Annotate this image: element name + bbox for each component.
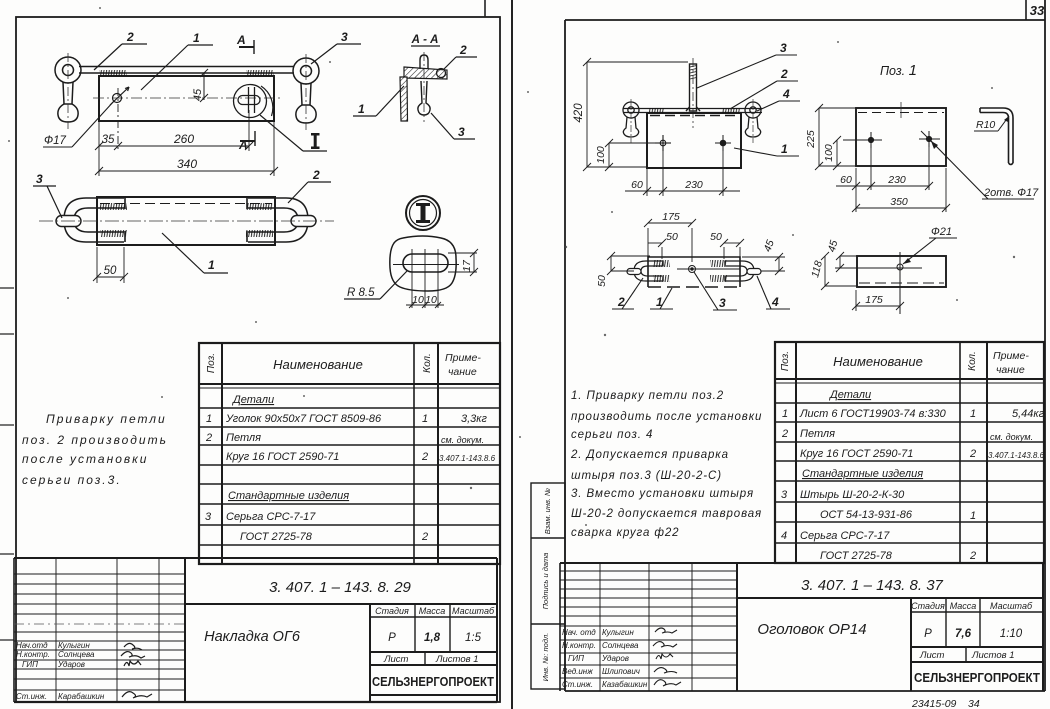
svg-text:Кулыгин: Кулыгин <box>58 641 90 650</box>
svg-text:2: 2 <box>126 30 134 44</box>
svg-text:Стандартные изделия: Стандартные изделия <box>228 490 349 502</box>
svg-text:Лист 6 ГОСТ19903-74 в:330: Лист 6 ГОСТ19903-74 в:330 <box>799 408 947 420</box>
svg-text:Масса: Масса <box>950 601 977 611</box>
sheet row right <box>919 650 1015 661</box>
hole Ф21 <box>835 252 922 314</box>
plate Поз.1 front <box>856 108 946 166</box>
svg-text:60: 60 <box>840 174 852 186</box>
leader label 1 (right front) <box>734 142 799 156</box>
svg-text:1,8: 1,8 <box>424 632 441 644</box>
svg-text:Круг 16 ГОСТ 2590-71: Круг 16 ГОСТ 2590-71 <box>800 448 913 460</box>
svg-text:Петля: Петля <box>800 428 835 440</box>
top stub of previous page number box <box>484 0 486 17</box>
signature rows text right <box>562 628 648 689</box>
svg-text:Карабашкин: Карабашкин <box>58 692 105 701</box>
svg-text:1:10: 1:10 <box>1000 628 1023 640</box>
svg-text:23415-09 34: 23415-09 34 <box>911 698 980 709</box>
svg-text:А: А <box>236 33 246 47</box>
svg-text:60: 60 <box>631 179 643 191</box>
dimension 118 (Поз.1 top) <box>821 252 857 290</box>
svg-text:225: 225 <box>805 130 817 149</box>
svg-text:3.407.1-143.8.6: 3.407.1-143.8.6 <box>439 454 496 463</box>
svg-text:Уголок 90х50х7 ГОСТ 8509-86: Уголок 90х50х7 ГОСТ 8509-86 <box>225 413 382 425</box>
items table rows text right <box>781 389 1045 562</box>
svg-text:Р: Р <box>924 628 932 640</box>
svg-text:чание: чание <box>996 364 1025 376</box>
center hole (right plan) <box>677 266 740 273</box>
svg-text:1:5: 1:5 <box>465 632 482 644</box>
leader label 4 (right plan) <box>757 276 790 309</box>
svg-text:1: 1 <box>782 408 788 420</box>
svg-text:Стандартные изделия: Стандартные изделия <box>802 468 923 480</box>
svg-text:Ст.инж.: Ст.инж. <box>562 680 593 689</box>
svg-text:3,3кг: 3,3кг <box>461 413 487 425</box>
svg-text:Детали: Детали <box>231 394 274 406</box>
svg-text:2отв. Ф17: 2отв. Ф17 <box>983 187 1039 199</box>
dimension 50 (plan) <box>93 247 128 283</box>
svg-text:Масштаб: Масштаб <box>990 601 1033 611</box>
rod end circle right <box>437 69 446 78</box>
dimension 175 (Поз.1 top) <box>852 290 904 311</box>
svg-text:2: 2 <box>421 451 428 463</box>
dimension 17 (detail) <box>448 249 478 276</box>
svg-text:3: 3 <box>781 489 788 501</box>
svg-text:Ф17: Ф17 <box>44 135 67 147</box>
svg-text:Приварку петли: Приварку петли <box>46 412 167 426</box>
hole left Поз.1 <box>843 132 882 148</box>
extension lines below plate <box>99 88 274 176</box>
leader label 3 (plan) <box>33 172 62 218</box>
svg-text:Ш-20-2 допускается тавровая: Ш-20-2 допускается тавровая <box>571 508 762 520</box>
shackle side view below leg <box>418 81 430 115</box>
svg-text:230: 230 <box>684 179 703 191</box>
leader label 2 (right front) <box>730 67 798 109</box>
title block grid left page <box>14 558 497 702</box>
section mark A top <box>236 33 254 54</box>
svg-text:Нач.отд: Нач.отд <box>16 641 48 650</box>
svg-text:штыря поз.3 (Ш-20-2-С): штыря поз.3 (Ш-20-2-С) <box>571 470 722 482</box>
label R10 <box>974 116 1009 131</box>
svg-text:1: 1 <box>656 295 663 309</box>
leader label 1 (plan) <box>162 233 228 273</box>
detail blob outline <box>390 236 456 291</box>
leader label 1 (right plan) <box>650 288 673 309</box>
svg-text:2: 2 <box>969 448 976 460</box>
svg-text:ГОСТ 2725-78: ГОСТ 2725-78 <box>820 550 893 562</box>
svg-text:чание: чание <box>448 366 477 378</box>
right pin pill <box>291 216 316 227</box>
label Ф21 <box>903 226 957 264</box>
svg-text:4: 4 <box>782 87 790 101</box>
svg-text:50: 50 <box>104 265 117 277</box>
leader label 2 (right plan) <box>612 278 643 309</box>
svg-text:СЕЛЬЗНЕРГОПРОЕКТ: СЕЛЬЗНЕРГОПРОЕКТ <box>914 670 1040 685</box>
plate plan view <box>97 197 275 245</box>
label R8.5 (detail) <box>344 271 407 299</box>
svg-text:Подпись и дата: Подпись и дата <box>541 553 550 610</box>
svg-text:Взам. инв. №: Взам. инв. № <box>543 488 552 534</box>
svg-text:3. Вместо установки штыря: 3. Вместо установки штыря <box>571 488 754 500</box>
margin strip rotated labels right page <box>531 483 565 689</box>
rod left loop plan <box>64 198 124 242</box>
svg-text:ОСТ 54-13-931-86: ОСТ 54-13-931-86 <box>820 509 913 521</box>
svg-text:1. Приварку петли поз.2: 1. Приварку петли поз.2 <box>571 390 724 402</box>
title block grid right page <box>560 563 1043 691</box>
pin (штырь) <box>686 64 700 111</box>
svg-text:сварка круга ф22: сварка круга ф22 <box>571 527 679 539</box>
svg-text:производить после установки: производить после установки <box>571 411 762 423</box>
svg-text:ГОСТ 2725-78: ГОСТ 2725-78 <box>240 531 313 543</box>
section A-A title <box>411 34 440 46</box>
svg-text:2: 2 <box>312 168 320 182</box>
signature rows text left <box>16 641 105 701</box>
svg-text:серьги поз. 4: серьги поз. 4 <box>571 429 653 441</box>
svg-text:3: 3 <box>780 41 787 55</box>
angle corner detail R10 <box>980 108 1013 165</box>
weld patches (right plan) <box>653 260 727 282</box>
svg-text:175: 175 <box>662 211 680 223</box>
stage mass scale values right <box>924 628 1023 640</box>
svg-text:340: 340 <box>177 157 197 171</box>
svg-text:35: 35 <box>102 134 115 146</box>
label Ф17 with leader <box>43 101 114 147</box>
svg-text:33: 33 <box>1030 3 1045 18</box>
dimension 420 <box>583 58 688 171</box>
left pin pill <box>56 216 81 227</box>
signature squiggles left <box>121 643 152 698</box>
hidden rod line in plate front right page <box>650 115 738 117</box>
svg-text:1: 1 <box>422 413 428 425</box>
plan centerline <box>39 220 334 222</box>
dimensions 60 230 350 (Поз.1) <box>836 147 950 212</box>
oval slot with boss front <box>234 85 267 118</box>
svg-text:Поз.: Поз. <box>780 351 791 371</box>
svg-text:см. докум.: см. докум. <box>990 432 1033 442</box>
hole right (front right page) <box>715 135 731 151</box>
svg-text:СЕЛЬЗНЕРГОПРОЕКТ: СЕЛЬЗНЕРГОПРОЕКТ <box>372 674 494 689</box>
svg-text:Приме-: Приме- <box>993 350 1029 362</box>
dimensions 60 230 (right front) <box>625 151 740 196</box>
leader label 3 (right front) <box>697 41 797 88</box>
plate Поз.1 top view <box>857 256 946 287</box>
weld patches plan corners <box>100 198 273 242</box>
signature table grid left page <box>14 558 185 702</box>
svg-text:230: 230 <box>887 174 906 186</box>
signature squiggles right <box>653 628 681 686</box>
svg-text:см. докум.: см. докум. <box>441 435 484 445</box>
detail grid lines <box>393 249 459 308</box>
svg-text:Круг 16 ГОСТ 2590-71: Круг 16 ГОСТ 2590-71 <box>226 451 339 463</box>
svg-text:Вед.инж: Вед.инж <box>562 667 593 676</box>
dimension 100 (Поз.1) <box>819 136 856 170</box>
dimension 50 left top (right plan) <box>648 239 666 259</box>
svg-text:420: 420 <box>573 103 585 123</box>
signature table grid right page <box>560 563 737 691</box>
svg-text:Оголовок ОР14: Оголовок ОР14 <box>757 621 866 638</box>
left shackle centerline small <box>630 99 632 143</box>
svg-text:Лист: Лист <box>383 654 409 665</box>
leader label 1 (A-A) <box>353 86 404 116</box>
svg-text:17: 17 <box>461 259 473 272</box>
svg-text:Приме-: Приме- <box>445 352 481 364</box>
stage mass scale header right <box>911 601 1033 611</box>
items table header text left <box>206 352 481 378</box>
svg-text:2: 2 <box>205 432 212 444</box>
svg-text:Листов 1: Листов 1 <box>971 650 1015 661</box>
svg-text:2: 2 <box>421 531 428 543</box>
svg-text:3: 3 <box>341 30 348 44</box>
svg-text:Инв. №: подл.: Инв. №: подл. <box>541 633 550 682</box>
svg-text:Н.контр.: Н.контр. <box>16 650 50 659</box>
svg-text:3: 3 <box>458 125 465 139</box>
right page frame <box>565 0 1045 691</box>
left shackle small <box>623 102 639 137</box>
plate plan hidden edge dashed <box>100 203 272 205</box>
svg-text:1: 1 <box>206 413 212 425</box>
svg-text:после установки: после установки <box>22 452 148 466</box>
svg-text:2: 2 <box>781 428 788 440</box>
dimension 100 (right front) <box>587 139 655 171</box>
svg-text:Наименование: Наименование <box>833 354 923 369</box>
leader label 2 (plan) <box>288 168 331 203</box>
svg-text:Листов 1: Листов 1 <box>435 654 479 665</box>
detail I reference leader on front view <box>260 86 327 151</box>
svg-text:1: 1 <box>208 258 215 272</box>
angle plate front view <box>99 76 274 121</box>
dimension 45 right side (right plan) <box>742 253 785 275</box>
svg-text:3: 3 <box>36 172 43 186</box>
svg-text:Ст.инж.: Ст.инж. <box>16 692 47 701</box>
svg-text:Ударов: Ударов <box>57 660 85 669</box>
svg-text:10: 10 <box>412 294 424 306</box>
svg-text:Солнцева: Солнцева <box>602 641 639 650</box>
plate centerline <box>93 97 283 99</box>
svg-text:100: 100 <box>823 144 835 162</box>
right shackle small <box>745 102 761 137</box>
svg-text:2. Допускается приварка: 2. Допускается приварка <box>570 449 729 461</box>
A-A centerline <box>423 52 425 122</box>
svg-text:50: 50 <box>710 231 722 243</box>
dimension 50 right top (right plan) <box>720 239 744 259</box>
left shackle front <box>55 57 81 122</box>
rod right loop (right plan) <box>726 261 754 281</box>
svg-text:50: 50 <box>666 231 678 243</box>
rod left loop (right plan) <box>634 261 662 281</box>
dimension 225 <box>815 104 856 170</box>
svg-text:3: 3 <box>719 296 726 310</box>
rod bar right page front <box>623 109 762 113</box>
svg-text:Масса: Масса <box>419 606 446 616</box>
dimension 175 (right plan) <box>644 219 696 262</box>
plate plan right page <box>648 257 740 287</box>
weld marks on plate top right page <box>648 108 664 113</box>
svg-text:Поз. 1: Поз. 1 <box>880 62 917 79</box>
right pin pill (right plan) <box>747 269 761 275</box>
detail slot obround <box>403 254 448 272</box>
hole Ф17 front <box>110 87 129 105</box>
section mark A bottom <box>238 131 255 152</box>
svg-text:Ударов: Ударов <box>601 654 629 663</box>
svg-text:Шлипович: Шлипович <box>602 667 640 676</box>
detail mark circle I <box>406 196 440 230</box>
svg-text:Накладка ОГ6: Накладка ОГ6 <box>204 629 301 645</box>
svg-text:10: 10 <box>425 294 437 306</box>
plate front right page <box>647 113 741 168</box>
items table grid left <box>199 343 500 564</box>
dimension 260 <box>118 142 253 150</box>
hole left (front right page) <box>655 135 671 151</box>
svg-text:Стадия: Стадия <box>911 601 945 611</box>
svg-text:5,44кг: 5,44кг <box>1012 408 1045 420</box>
svg-text:Штырь Ш-20-2-К-30: Штырь Ш-20-2-К-30 <box>800 489 905 501</box>
svg-text:2: 2 <box>459 43 467 57</box>
stage mass scale values left <box>388 632 481 644</box>
label 2отв.Ф17 <box>931 141 1039 199</box>
dimension 50 vertical (right plan) <box>607 252 650 275</box>
svg-text:Р: Р <box>388 632 396 644</box>
leader label 3 (front view right) <box>311 30 361 64</box>
svg-text:2: 2 <box>780 67 788 81</box>
svg-text:3. 407. 1 – 143. 8. 29: 3. 407. 1 – 143. 8. 29 <box>269 579 411 596</box>
svg-text:Серьга СРС-7-17: Серьга СРС-7-17 <box>800 530 890 542</box>
weld seam right on plate top <box>246 70 274 76</box>
svg-text:3: 3 <box>205 511 212 523</box>
svg-text:Детали: Детали <box>828 389 871 401</box>
leader label 2 (A-A) <box>443 43 477 70</box>
pin centerline <box>692 58 694 128</box>
svg-text:Н.контр.: Н.контр. <box>562 641 596 650</box>
svg-text:350: 350 <box>890 196 908 208</box>
svg-text:7,6: 7,6 <box>955 628 972 640</box>
svg-text:3.407.1-143.8.6: 3.407.1-143.8.6 <box>988 451 1045 460</box>
svg-text:45: 45 <box>192 88 204 101</box>
svg-text:Петля: Петля <box>226 432 261 444</box>
angle horizontal leg section (hatched) <box>404 67 447 79</box>
svg-text:1: 1 <box>970 510 976 522</box>
dimension 340 <box>95 167 278 175</box>
svg-text:3. 407. 1 – 143. 8. 37: 3. 407. 1 – 143. 8. 37 <box>801 577 943 594</box>
svg-text:серьги поз.3.: серьги поз.3. <box>22 473 122 487</box>
items table header text right <box>780 350 1029 376</box>
items table rows text left <box>205 394 496 543</box>
dimension 45 (Поз.1 top) <box>836 252 857 272</box>
svg-text:Наименование: Наименование <box>273 357 363 372</box>
hole right Поз.1 <box>919 131 940 147</box>
rod bar (петля) front view <box>79 67 294 74</box>
svg-text:Лист: Лист <box>919 650 945 661</box>
svg-text:Кол.: Кол. <box>422 353 433 373</box>
svg-text:1: 1 <box>781 142 788 156</box>
svg-text:4: 4 <box>781 530 787 542</box>
left page frame <box>16 17 500 702</box>
svg-text:поз. 2 производить: поз. 2 производить <box>22 433 168 447</box>
notes text right page <box>570 390 762 539</box>
svg-text:4: 4 <box>771 295 779 309</box>
note text left page <box>22 412 168 487</box>
left shackle centerline <box>67 53 69 129</box>
svg-text:ГИП: ГИП <box>22 660 38 669</box>
svg-text:260: 260 <box>173 132 194 146</box>
svg-text:Серьга СРС-7-17: Серьга СРС-7-17 <box>226 511 316 523</box>
sheet row left <box>383 654 479 665</box>
leader label 2 (front view) <box>94 30 147 70</box>
svg-text:1: 1 <box>358 102 365 116</box>
svg-text:Масштаб: Масштаб <box>452 606 495 616</box>
rod section on top of leg <box>420 55 428 69</box>
weld seam left on plate top <box>99 70 127 76</box>
svg-text:Кол.: Кол. <box>967 351 978 371</box>
svg-text:175: 175 <box>865 294 883 306</box>
svg-text:50: 50 <box>596 275 608 287</box>
svg-text:Солнцева: Солнцева <box>58 650 95 659</box>
svg-text:Казабашкин: Казабашкин <box>602 680 648 689</box>
scan speckles <box>8 7 1015 589</box>
dimension 10 10 (detail) <box>406 302 444 308</box>
hidden rod line Поз.1 <box>858 112 944 114</box>
page number box 33 <box>1026 0 1045 20</box>
svg-text:Кулыгин: Кулыгин <box>602 628 634 637</box>
top centre tick Поз.1 <box>900 102 902 118</box>
svg-text:100: 100 <box>595 146 607 164</box>
stage mass scale header left <box>375 606 495 616</box>
svg-text:R10: R10 <box>976 119 995 131</box>
leader label 1 (front view) <box>141 31 213 90</box>
leader label 4 (right front) <box>757 87 800 111</box>
scan divider line between pages <box>511 0 513 709</box>
dimension 35 <box>95 142 122 150</box>
leader label 3 (A-A) <box>431 113 475 139</box>
left pin pill (right plan) <box>627 269 641 275</box>
svg-text:Поз.: Поз. <box>206 353 217 373</box>
rod right loop plan <box>248 198 308 242</box>
items table grid right <box>775 342 1044 563</box>
hidden line Поз.1 top <box>859 282 944 284</box>
svg-text:ГИП: ГИП <box>568 654 584 663</box>
svg-text:А - А: А - А <box>411 34 439 46</box>
right shackle front <box>293 58 319 123</box>
svg-text:Ф21: Ф21 <box>931 226 952 238</box>
svg-text:2: 2 <box>969 550 976 562</box>
svg-text:R 8.5: R 8.5 <box>347 287 375 299</box>
svg-text:1: 1 <box>193 31 200 45</box>
svg-text:1: 1 <box>970 408 976 420</box>
svg-text:Нач. отд: Нач. отд <box>562 628 596 637</box>
dimension 45 vertical <box>200 69 208 102</box>
right shackle centerline small <box>752 99 754 143</box>
angle vertical leg section (hatched) <box>400 77 408 121</box>
right shackle centerline <box>305 54 307 130</box>
left margin ticks <box>0 288 14 640</box>
leader label 3 (right plan) <box>694 272 737 310</box>
svg-text:Стадия: Стадия <box>375 606 409 616</box>
